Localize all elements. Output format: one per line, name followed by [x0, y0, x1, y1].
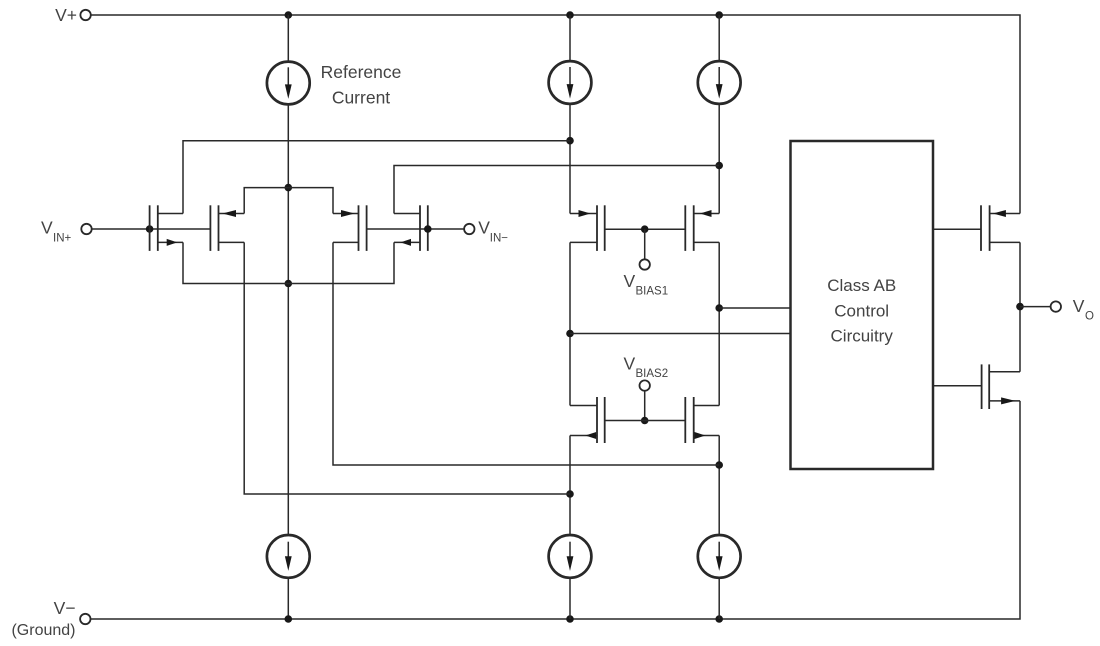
transistor Q3 (PMOS input, inner right)	[333, 205, 367, 251]
transistor Q7 (NMOS cascode, left)	[570, 397, 605, 443]
wire: Q7/Q8 gate connection	[605, 420, 686, 422]
wire: I3 down to cascode Q6 source	[718, 104, 720, 213]
svg-text:V−: V−	[54, 598, 76, 618]
wire: output node to VO terminal	[1020, 306, 1051, 308]
wire: top rail to current source I3	[718, 15, 720, 61]
transistor Q2 (PMOS input, inner left)	[210, 205, 244, 251]
VBIAS1 label	[624, 271, 669, 298]
node: branch2 / wire to Class AB box	[566, 330, 574, 338]
label: Reference Current	[321, 62, 402, 108]
VIN- terminal	[464, 224, 474, 234]
svg-text:V: V	[624, 354, 636, 374]
wire: top rail to current source I2	[569, 15, 571, 61]
wire: I2 down to cascode Q5 source	[569, 104, 571, 213]
wire: Q4 drain to branch3	[394, 166, 719, 214]
node: branch2 / wire to Q1 drain	[566, 137, 574, 145]
wire: branch3 to Class AB box	[719, 307, 790, 309]
top rail wire V+ (to Q9 source)	[91, 15, 1020, 214]
wire: NMOS pair tail	[183, 242, 394, 283]
svg-text:V: V	[478, 218, 490, 238]
svg-text:V: V	[1073, 296, 1085, 316]
wire: Q9 drain to Q10 drain (output node)	[1019, 242, 1021, 371]
svg-text:Class AB: Class AB	[827, 276, 896, 295]
node: NMOS pair tail	[285, 280, 293, 288]
svg-text:BIAS1: BIAS1	[636, 285, 669, 297]
current source I5	[549, 535, 592, 578]
VO label	[1073, 296, 1094, 323]
wire: I4 to bottom rail	[287, 578, 289, 619]
VBIAS2 label	[624, 354, 669, 381]
VIN- label	[478, 218, 508, 245]
transistor Q4 (NMOS input, outer right)	[394, 205, 428, 251]
V- terminal	[80, 614, 90, 624]
wire: VIN+ to Q1/Q2 gates	[92, 228, 211, 230]
V+ terminal	[80, 10, 90, 20]
wire: PMOS pair tail	[244, 188, 333, 214]
wire: I1 down through input tails to I4	[287, 105, 289, 535]
node: PMOS pair tail	[285, 184, 293, 192]
transistor Q8 (NMOS cascode, right)	[685, 397, 719, 443]
node: top rail / reference branch junction	[285, 11, 293, 19]
current source I2	[549, 61, 592, 104]
transistor Q5 (PMOS cascode, left)	[570, 205, 605, 251]
transistor Q9 (PMOS output)	[981, 205, 1020, 251]
wire: VBIAS2 stub	[644, 391, 646, 421]
transistor Q10 (NMOS output)	[982, 364, 1020, 409]
svg-text:V+: V+	[55, 5, 77, 25]
current source I6	[698, 535, 741, 578]
wire: Q7 source down to current source I5	[569, 436, 571, 535]
VO terminal	[1051, 301, 1061, 311]
svg-text:Reference: Reference	[321, 62, 402, 82]
wire: I5 to bottom rail	[569, 578, 571, 619]
wire: Q3/Q4 gates to VIN- terminal	[367, 228, 465, 230]
current source I1 (reference)	[267, 62, 310, 105]
svg-text:(Ground): (Ground)	[11, 622, 75, 639]
transistor Q6 (PMOS cascode, right)	[685, 205, 719, 251]
bottom rail wire V- (to Q10 source)	[91, 401, 1020, 619]
transistor Q1 (NMOS input, outer left)	[150, 205, 183, 251]
wire: branch2 to Class AB box	[570, 333, 791, 335]
wire: Q8 source down to current source I6	[718, 436, 720, 535]
svg-text:BIAS2: BIAS2	[636, 368, 669, 380]
node: output junction	[1016, 303, 1024, 311]
wire: box to Q9 gate	[933, 228, 981, 230]
svg-text:IN+: IN+	[53, 233, 72, 245]
wire: VBIAS1 stub	[644, 229, 646, 259]
svg-text:IN−: IN−	[490, 233, 509, 245]
wire: Q1 drain to branch2	[183, 141, 570, 214]
wire: Q5 drain down to Q7 drain	[569, 242, 571, 405]
wire: box to Q10 gate	[933, 385, 982, 387]
wire: Q6 drain down to Q8 drain	[718, 242, 720, 405]
VIN+ terminal	[81, 224, 91, 234]
svg-text:V: V	[624, 271, 636, 291]
current source I3	[698, 61, 741, 104]
node: VBIAS2 junction	[641, 417, 649, 425]
Class AB Control Circuitry box	[791, 141, 934, 469]
node: VIN+ wire at Q1 gate	[146, 225, 154, 233]
wire: Q2 drain to branch2	[244, 242, 570, 494]
VIN+ label	[41, 218, 72, 245]
node: VBIAS1 junction	[641, 225, 649, 233]
node: bottom rail / I5 junction	[566, 615, 574, 623]
node: branch2 / wire from Q2 drain	[566, 490, 574, 498]
node: branch3 / wire to Class AB box	[715, 304, 723, 312]
node: top rail / branch 2 junction	[566, 11, 574, 19]
svg-text:O: O	[1085, 311, 1094, 323]
node: bottom rail / I4 junction	[285, 615, 293, 623]
wire: top rail to current source I1	[287, 15, 289, 61]
wire: Q3 drain to branch3	[333, 242, 719, 465]
svg-text:Control: Control	[834, 301, 889, 320]
svg-text:Current: Current	[332, 88, 390, 108]
wire: Q5/Q6 gate connection	[605, 228, 686, 230]
node: VIN- wire at Q4 gate	[424, 225, 432, 233]
node: top rail / branch 3 junction	[715, 11, 723, 19]
wire: I6 to bottom rail	[718, 578, 720, 619]
node: branch3 / wire to Q4 drain	[715, 162, 723, 170]
VBIAS2 terminal	[640, 380, 650, 390]
node: branch3 / wire from Q3 drain	[715, 461, 723, 469]
VBIAS1 terminal	[640, 259, 650, 269]
svg-text:Circuitry: Circuitry	[831, 326, 894, 345]
node: bottom rail / I6 junction	[715, 615, 723, 623]
current source I4	[267, 535, 310, 578]
svg-text:V: V	[41, 218, 53, 238]
label: Class AB Control Circuitry	[827, 276, 896, 345]
